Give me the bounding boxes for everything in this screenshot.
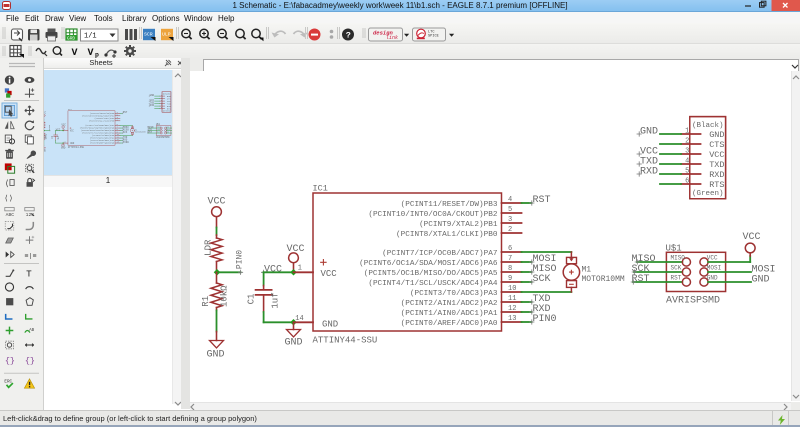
svg-text:≡|≡: ≡|≡ <box>24 252 36 260</box>
hidden defs for schematic <box>0 0 1 1</box>
window buttons <box>740 0 800 11</box>
svg-text:GRD: GRD <box>67 35 75 41</box>
svg-text:V: V <box>88 48 94 58</box>
svg-text:SCR: SCR <box>144 32 153 38</box>
svg-text:T: T <box>26 268 32 279</box>
svg-text:ABC: ABC <box>6 212 15 218</box>
svg-text:AB: AB <box>29 328 35 333</box>
svg-text:V: V <box>72 48 78 58</box>
svg-text:?: ? <box>346 31 351 41</box>
svg-text:ULP: ULP <box>162 32 171 38</box>
svg-text:⟨⟩: ⟨⟩ <box>4 194 13 203</box>
svg-text:⟨: ⟨ <box>4 179 9 189</box>
svg-text:{}: {} <box>25 356 35 366</box>
svg-text:1/1: 1/1 <box>84 33 97 41</box>
svg-text:link: link <box>386 35 398 41</box>
svg-text:{}: {} <box>5 356 15 366</box>
svg-text:SPICE: SPICE <box>428 35 439 39</box>
